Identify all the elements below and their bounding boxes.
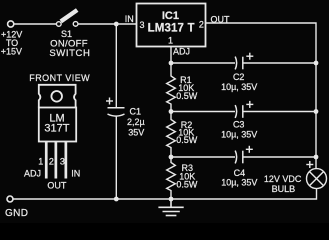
node R1-R2 junction — [169, 109, 174, 114]
input terminal — [8, 21, 14, 27]
svg-text:2,2µ: 2,2µ — [127, 117, 145, 127]
label C3 10u 35V — [221, 120, 257, 140]
wire row1 right — [243, 62, 316, 64]
switch S1 — [56, 10, 77, 26]
node input junction — [114, 22, 119, 27]
svg-text:0.5W: 0.5W — [176, 91, 198, 101]
svg-text:OUT: OUT — [211, 14, 231, 24]
wire switch to IC1 — [78, 23, 137, 25]
wire row3 left — [171, 156, 235, 158]
wire bulb to ground rail — [13, 189, 316, 199]
svg-text:C3: C3 — [233, 120, 245, 130]
svg-text:C2: C2 — [233, 72, 245, 82]
label S1 ON/OFF SWITCH — [49, 29, 90, 59]
svg-text:LM317 T: LM317 T — [148, 23, 195, 35]
package legs — [45, 142, 67, 179]
node ground junction — [169, 197, 174, 202]
svg-text:IN: IN — [125, 14, 134, 24]
capacitor C2 — [235, 53, 253, 70]
label C4 10u 35V — [221, 168, 257, 188]
wire OUT to right rail — [206, 23, 317, 169]
svg-text:IC1: IC1 — [162, 10, 179, 22]
svg-text:+15V: +15V — [1, 47, 22, 57]
svg-text:OUT: OUT — [47, 181, 67, 191]
wire row2 right — [243, 111, 316, 113]
resistor R2 — [167, 112, 176, 158]
svg-text:0.5W: 0.5W — [176, 135, 198, 145]
label 12V VDC BULB — [264, 174, 302, 194]
svg-text:12V VDC: 12V VDC — [264, 174, 302, 184]
svg-text:10µ, 35V: 10µ, 35V — [221, 178, 257, 188]
label +12V TO +15V — [1, 29, 22, 56]
node row2 rail junction — [314, 109, 319, 114]
wire ADJ stub — [170, 47, 172, 64]
svg-text:1: 1 — [38, 156, 43, 166]
package text LM 317T — [44, 113, 69, 135]
transistor package front view TO-220 tab — [39, 85, 76, 142]
svg-text:GND: GND — [5, 208, 28, 219]
node row3 rail junction — [314, 155, 319, 160]
wire junction down to C1 — [115, 24, 117, 108]
svg-text:1: 1 — [168, 35, 173, 45]
node row1 rail junction — [314, 61, 319, 66]
svg-text:2: 2 — [49, 156, 54, 166]
svg-text:2: 2 — [199, 20, 204, 30]
svg-text:IN: IN — [71, 169, 80, 179]
wire input to switch — [14, 23, 56, 25]
capacitor C3 — [235, 101, 253, 118]
node R2-R3 junction — [169, 155, 174, 160]
label R2 10K 0.5W — [176, 120, 198, 145]
svg-text:3: 3 — [60, 156, 65, 166]
resistor R3 — [167, 157, 176, 199]
wire row1 left — [171, 62, 235, 64]
svg-text:C1: C1 — [130, 106, 142, 116]
label R1 10K 0.5W — [176, 75, 198, 101]
wire row2 left — [171, 111, 235, 113]
ground symbol — [158, 199, 183, 216]
node C1 ground junction — [114, 197, 119, 202]
svg-text:C4: C4 — [234, 168, 246, 178]
label R3 10K 0.5W — [176, 163, 198, 190]
resistor R1 — [167, 63, 176, 112]
IC1 box — [137, 4, 206, 47]
label C2 10u 35V — [221, 72, 257, 92]
capacitor C4 — [235, 146, 253, 164]
svg-text:ADJ: ADJ — [24, 168, 41, 178]
capacitor C1 — [106, 98, 125, 117]
svg-text:3: 3 — [139, 20, 144, 30]
package pin numbers 1 2 3 — [38, 156, 65, 166]
svg-text:10µ, 35V: 10µ, 35V — [221, 82, 257, 92]
svg-text:S1: S1 — [61, 29, 72, 39]
svg-text:BULB: BULB — [272, 184, 296, 194]
lamp DS1 12V bulb — [306, 161, 326, 189]
svg-text:FRONT VIEW: FRONT VIEW — [29, 73, 90, 83]
ground terminal — [7, 196, 13, 202]
label C1 2,2u 35V — [127, 106, 145, 137]
svg-text:317T: 317T — [44, 123, 69, 135]
svg-text:0.5W: 0.5W — [176, 180, 198, 190]
svg-text:10µ, 35V: 10µ, 35V — [221, 130, 257, 140]
svg-text:SWITCH: SWITCH — [49, 48, 90, 59]
svg-text:35V: 35V — [128, 127, 144, 137]
wire row3 right — [243, 156, 316, 158]
svg-text:ADJ: ADJ — [173, 46, 190, 56]
node ADJ junction — [169, 61, 174, 66]
wire C1 to ground rail — [115, 116, 117, 199]
